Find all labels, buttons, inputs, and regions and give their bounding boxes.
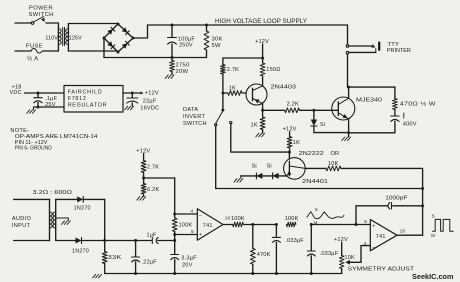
svg-text:470K: 470K (257, 252, 271, 258)
svg-text:M: M (431, 233, 435, 238)
svg-text:2750: 2750 (176, 63, 190, 69)
svg-text:+12V: +12V (145, 90, 159, 96)
svg-text:DATA: DATA (183, 107, 198, 113)
svg-text:.22µF: .22µF (142, 259, 158, 265)
svg-text:Si: Si (267, 163, 272, 169)
svg-text:FUSE: FUSE (26, 43, 43, 49)
svg-text:FAIRCHILD: FAIRCHILD (68, 89, 103, 95)
svg-text:10: 10 (225, 216, 231, 221)
svg-text:REGULATOR: REGULATOR (68, 102, 108, 108)
svg-text:10: 10 (400, 228, 406, 233)
svg-text:20W: 20W (176, 69, 189, 75)
svg-text:100µF: 100µF (178, 36, 195, 42)
svg-text:150Ω: 150Ω (266, 67, 280, 73)
svg-text:10K: 10K (344, 255, 355, 261)
svg-text:3.3µF: 3.3µF (181, 256, 197, 262)
svg-text:2N4403: 2N4403 (271, 84, 297, 90)
svg-text:741: 741 (376, 234, 386, 240)
svg-text:110V: 110V (45, 35, 58, 41)
svg-text:Si: Si (320, 122, 325, 128)
svg-text:2.7K: 2.7K (147, 165, 159, 171)
svg-text:S: S (315, 207, 318, 212)
svg-text:16VDC: 16VDC (140, 105, 159, 111)
svg-text:1N270: 1N270 (74, 205, 91, 211)
svg-text:400V: 400V (403, 122, 417, 128)
svg-text:F7812: F7812 (68, 96, 87, 102)
svg-text:2.2K: 2.2K (287, 102, 299, 108)
svg-text:–: – (372, 244, 375, 250)
svg-text:POWER: POWER (29, 6, 53, 12)
svg-text:741: 741 (203, 223, 213, 229)
svg-text:4: 4 (191, 209, 194, 215)
svg-text:10K: 10K (328, 161, 339, 167)
svg-text:+: + (199, 232, 202, 238)
svg-text:.033µF: .033µF (285, 238, 304, 244)
svg-text:2N4401: 2N4401 (302, 179, 328, 185)
svg-text:+12V: +12V (334, 237, 348, 243)
svg-text:VDC: VDC (10, 90, 22, 96)
svg-text:OP-AMPS ARE LM741CN-14: OP-AMPS ARE LM741CN-14 (15, 134, 98, 140)
svg-text:SYMMETRY ADJUST: SYMMETRY ADJUST (348, 267, 415, 273)
svg-text:22µF: 22µF (143, 98, 157, 104)
svg-text:30K: 30K (212, 37, 223, 43)
svg-text:AUDIO: AUDIO (12, 216, 32, 222)
svg-text:SWITCH: SWITCH (29, 12, 54, 18)
svg-text:5: 5 (191, 229, 194, 235)
svg-text:PRINTER: PRINTER (387, 48, 411, 54)
svg-text:1000pF: 1000pF (385, 195, 408, 201)
svg-text:.033µF: .033µF (320, 251, 339, 257)
svg-text:470Ω ½ W: 470Ω ½ W (400, 100, 437, 107)
svg-text:INVERT: INVERT (183, 114, 205, 120)
svg-text:+: + (372, 223, 375, 229)
svg-text:SeekIC.com: SeekIC.com (412, 272, 454, 281)
svg-text:100K: 100K (285, 216, 299, 222)
svg-text:HIGH VOLTAGE LOOP SUPPLY: HIGH VOLTAGE LOOP SUPPLY (215, 18, 307, 25)
svg-text:1K: 1K (251, 122, 258, 128)
svg-text:100K: 100K (231, 216, 245, 222)
svg-text:33K: 33K (108, 255, 122, 261)
svg-text:PIN 6- GROUND: PIN 6- GROUND (15, 145, 52, 151)
svg-text:20V: 20V (182, 263, 193, 269)
svg-text:1N270: 1N270 (72, 248, 89, 254)
svg-text:1K: 1K (293, 140, 300, 146)
svg-text:250V: 250V (179, 43, 193, 49)
svg-text:3.2Ω : 600Ω: 3.2Ω : 600Ω (33, 190, 73, 196)
svg-text:M: M (314, 220, 318, 225)
svg-text:125V: 125V (69, 35, 82, 41)
svg-text:½ A: ½ A (27, 56, 39, 63)
svg-text:INPUT: INPUT (12, 223, 31, 229)
svg-text:5: 5 (364, 219, 367, 225)
svg-text:OR: OR (331, 151, 340, 157)
svg-text:Si: Si (252, 163, 257, 169)
svg-text:1K: 1K (229, 85, 236, 91)
svg-text:SWITCH: SWITCH (183, 121, 207, 127)
svg-text:2.7K: 2.7K (227, 67, 239, 73)
svg-text:100K: 100K (179, 222, 193, 228)
svg-text:1µF: 1µF (147, 233, 158, 239)
svg-text:2N2222: 2N2222 (299, 151, 324, 157)
svg-text:MJE340: MJE340 (356, 97, 382, 103)
svg-text:6.2K: 6.2K (147, 187, 159, 193)
svg-text:S: S (432, 214, 435, 219)
svg-text:–: – (199, 212, 202, 218)
svg-text:25V: 25V (45, 102, 56, 108)
svg-text:5W: 5W (212, 43, 222, 49)
